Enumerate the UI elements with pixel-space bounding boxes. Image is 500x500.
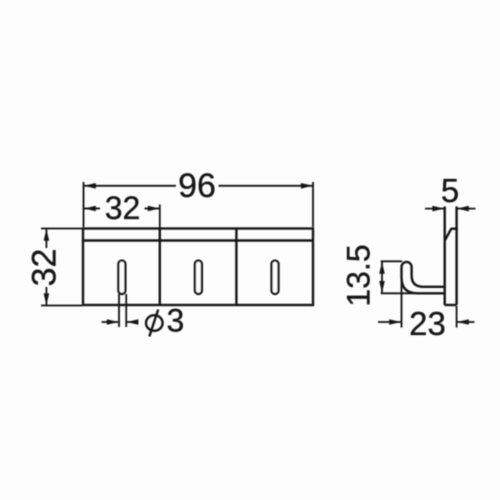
svg-text:3: 3 [167, 303, 185, 339]
svg-text:32: 32 [105, 190, 141, 226]
svg-text:96: 96 [178, 167, 216, 205]
svg-text:23: 23 [409, 305, 446, 342]
svg-text:13.5: 13.5 [341, 244, 377, 306]
svg-text:32: 32 [26, 249, 64, 287]
svg-text:5: 5 [441, 172, 459, 209]
